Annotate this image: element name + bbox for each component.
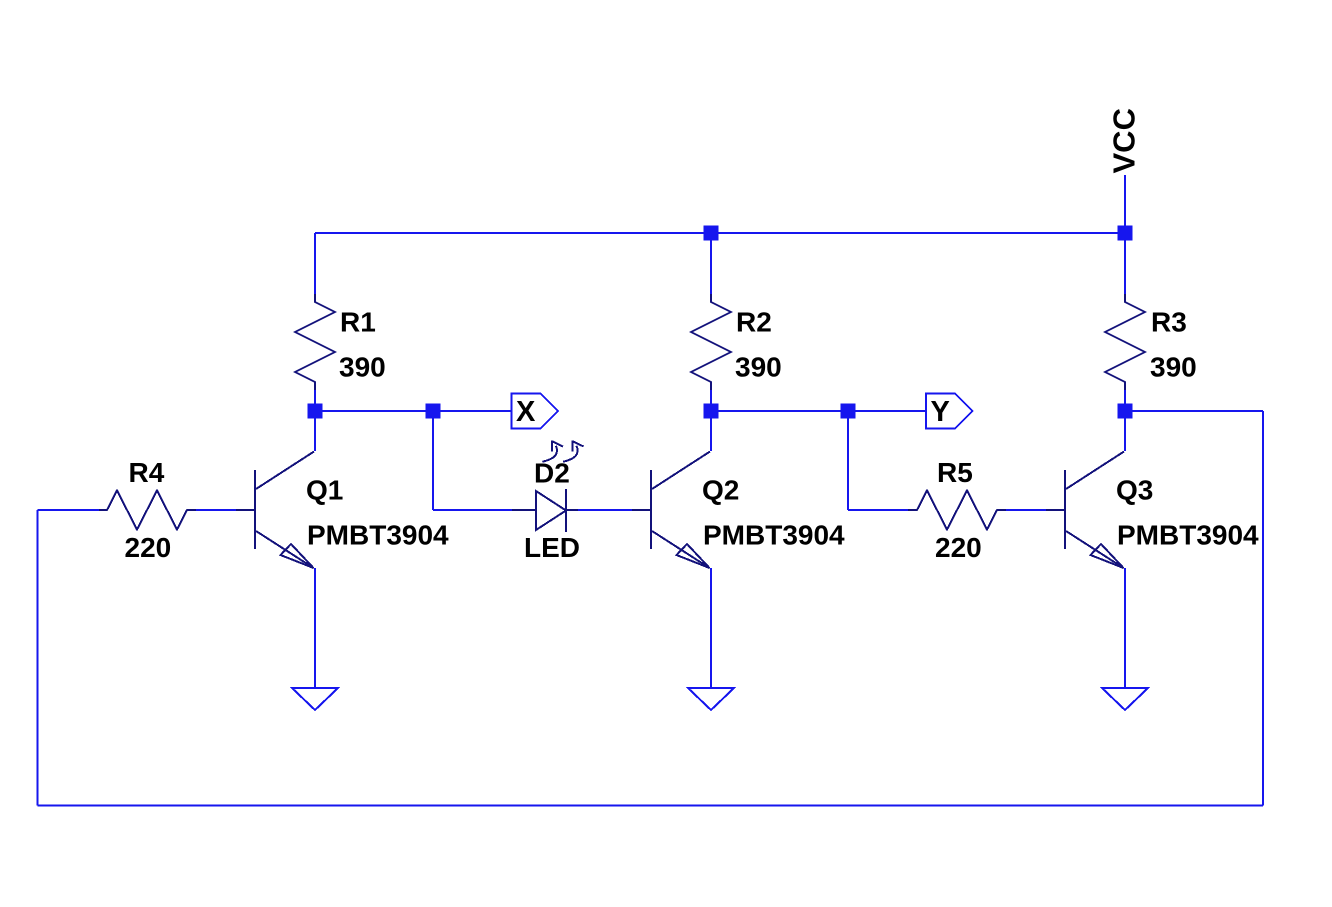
svg-text:PMBT3904: PMBT3904 bbox=[1117, 520, 1259, 551]
wire VCC drop bbox=[1124, 175, 1126, 233]
wire bottom rail bbox=[38, 805, 1264, 807]
value D2 LED bbox=[524, 532, 580, 563]
svg-text:Y: Y bbox=[931, 396, 950, 428]
ground Q2 bbox=[688, 688, 734, 710]
wire Q1 emitter bbox=[314, 568, 316, 688]
wire R5 to Q3 base bbox=[1006, 509, 1046, 511]
label R1 bbox=[340, 307, 376, 338]
wire rail to R1 bbox=[314, 233, 316, 294]
svg-text:LED: LED bbox=[524, 532, 580, 563]
svg-text:VCC: VCC bbox=[1107, 108, 1142, 173]
svg-text:R1: R1 bbox=[340, 307, 376, 338]
wire X branch down bbox=[432, 411, 434, 510]
LED D2 bbox=[512, 441, 584, 533]
label R4 bbox=[129, 457, 165, 488]
wire R1 to node X bbox=[314, 390, 316, 415]
value Q2 PMBT3904 bbox=[703, 520, 845, 551]
wire X branch to LED bbox=[433, 509, 512, 511]
junction top rail R2 bbox=[704, 226, 719, 241]
wire Q3 collector bbox=[1124, 409, 1126, 451]
label R2 bbox=[736, 307, 772, 338]
ground Q3 bbox=[1102, 688, 1148, 710]
svg-text:R4: R4 bbox=[129, 457, 165, 488]
value Q1 PMBT3904 bbox=[307, 520, 449, 551]
label Q3 bbox=[1116, 474, 1153, 505]
wire R4 to Q1 base bbox=[196, 509, 236, 511]
wire node Y horizontal bbox=[711, 410, 926, 412]
resistor R2 bbox=[691, 294, 731, 390]
junction node X branch bbox=[426, 404, 441, 419]
label D2 bbox=[534, 458, 570, 489]
wire left rail to R4 bbox=[38, 509, 100, 511]
wire Q1 collector bbox=[314, 409, 316, 451]
wire node to right rail bbox=[1125, 410, 1263, 412]
junction node Y branch bbox=[841, 404, 856, 419]
svg-text:Q2: Q2 bbox=[702, 474, 739, 505]
svg-text:390: 390 bbox=[339, 352, 386, 383]
resistor R3 bbox=[1105, 294, 1145, 390]
wire rail to R2 bbox=[710, 233, 712, 294]
wire R3 to node bbox=[1124, 390, 1126, 415]
value R4 220 bbox=[125, 532, 172, 563]
value R5 220 bbox=[935, 532, 982, 563]
label R3 bbox=[1151, 307, 1187, 338]
flag X bbox=[512, 394, 559, 429]
transistor Q3 bbox=[1046, 452, 1124, 569]
flag Y bbox=[926, 394, 973, 429]
svg-text:D2: D2 bbox=[534, 458, 570, 489]
wire node X horizontal bbox=[315, 410, 512, 412]
svg-text:Q1: Q1 bbox=[306, 474, 343, 505]
wire Y branch down bbox=[847, 411, 849, 510]
VCC label bbox=[1107, 108, 1142, 173]
value Q3 PMBT3904 bbox=[1117, 520, 1259, 551]
junction node Y at R2 bbox=[704, 404, 719, 419]
label R5 bbox=[937, 457, 973, 488]
transistor Q1 bbox=[236, 452, 314, 569]
wire rail to R3 bbox=[1124, 233, 1126, 294]
svg-text:X: X bbox=[516, 396, 536, 428]
label Q2 bbox=[702, 474, 739, 505]
wire LED to Q2 base bbox=[578, 509, 632, 511]
wire left rail bbox=[37, 510, 39, 806]
wire Y branch to R5 bbox=[848, 509, 908, 511]
junction node Q3 collector bbox=[1118, 404, 1133, 419]
label Q1 bbox=[306, 474, 343, 505]
transistor Q2 bbox=[632, 452, 710, 569]
svg-text:Q3: Q3 bbox=[1116, 474, 1153, 505]
wire right rail bbox=[1262, 411, 1264, 806]
svg-text:PMBT3904: PMBT3904 bbox=[703, 520, 845, 551]
svg-text:R2: R2 bbox=[736, 307, 772, 338]
svg-text:R5: R5 bbox=[937, 457, 973, 488]
resistor R4 bbox=[99, 491, 196, 530]
svg-text:220: 220 bbox=[935, 532, 982, 563]
svg-text:220: 220 bbox=[125, 532, 172, 563]
ground Q1 bbox=[292, 688, 338, 710]
value R2 390 bbox=[735, 352, 782, 383]
wire Q2 emitter bbox=[710, 568, 712, 688]
svg-text:390: 390 bbox=[1150, 352, 1197, 383]
value R1 390 bbox=[339, 352, 386, 383]
wire Q2 collector bbox=[710, 409, 712, 451]
resistor R5 bbox=[908, 491, 1006, 530]
junction node X at R1 bbox=[308, 404, 323, 419]
value R3 390 bbox=[1150, 352, 1197, 383]
svg-text:390: 390 bbox=[735, 352, 782, 383]
svg-text:PMBT3904: PMBT3904 bbox=[307, 520, 449, 551]
svg-text:R3: R3 bbox=[1151, 307, 1187, 338]
resistor R1 bbox=[295, 294, 335, 390]
junction top rail VCC R3 bbox=[1118, 226, 1133, 241]
wire Q3 emitter bbox=[1124, 568, 1126, 688]
wire R2 to node Y bbox=[710, 390, 712, 415]
wire top rail VCC bbox=[315, 232, 1125, 234]
